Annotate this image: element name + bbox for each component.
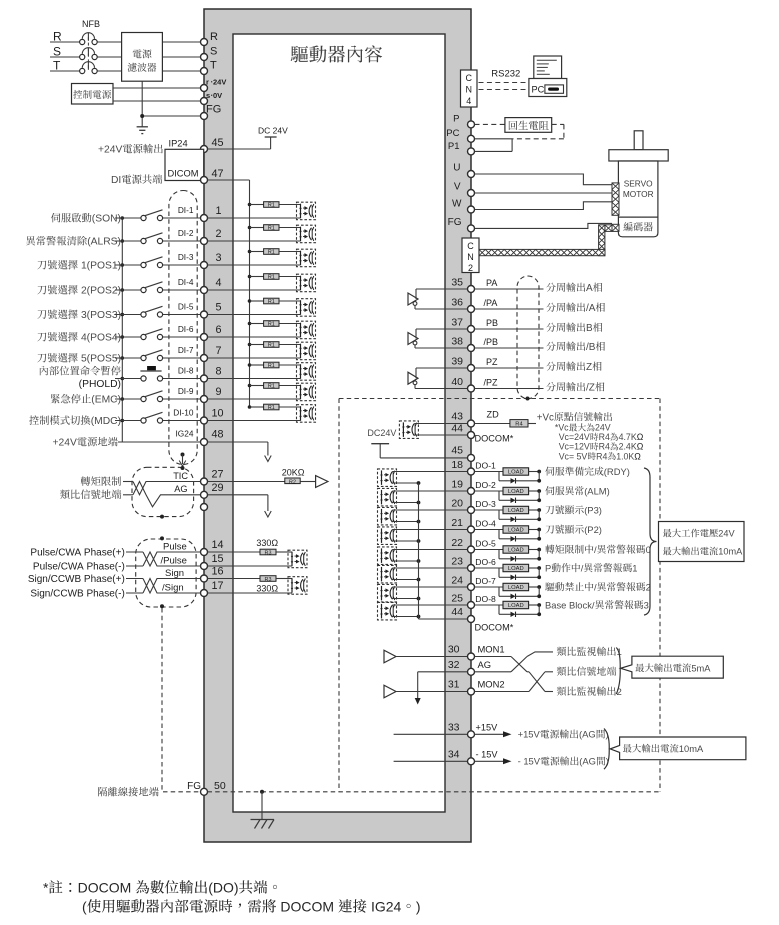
svg-text:R3: R3 [265, 551, 272, 557]
svg-text:N: N [467, 252, 474, 262]
svg-text:FG: FG [206, 104, 221, 116]
svg-text:24: 24 [451, 575, 463, 587]
svg-text:LOAD: LOAD [508, 470, 524, 476]
svg-text:DICOM: DICOM [168, 169, 199, 179]
svg-text:DI-7: DI-7 [178, 345, 194, 355]
svg-text:Vc= 5V: Vc= 5V [559, 451, 588, 461]
svg-text:37: 37 [451, 317, 463, 329]
svg-text:IG24: IG24 [367, 899, 401, 915]
svg-text:18: 18 [451, 459, 463, 471]
svg-text:DI-9: DI-9 [178, 386, 194, 396]
svg-text:R1: R1 [268, 384, 275, 390]
svg-text:23: 23 [451, 556, 463, 568]
svg-text:/A: /A [586, 303, 596, 314]
svg-text:R1: R1 [268, 343, 275, 349]
svg-text:- 15V: - 15V [476, 749, 499, 759]
svg-text:43: 43 [451, 411, 463, 423]
svg-text:Sign/CCWB Phase(-): Sign/CCWB Phase(-) [30, 588, 124, 599]
svg-text:(: ( [82, 899, 87, 915]
svg-text:V: V [454, 182, 461, 193]
svg-text:C: C [467, 241, 474, 251]
svg-text:DC 24V: DC 24V [258, 126, 288, 136]
svg-text:LOAD: LOAD [508, 566, 524, 572]
svg-text:MON2: MON2 [478, 679, 505, 690]
svg-text:R: R [210, 31, 218, 43]
svg-text:(AG: (AG [579, 756, 596, 767]
svg-text:20K: 20K [282, 468, 298, 478]
svg-text:R1: R1 [268, 405, 275, 411]
svg-text:DI-1: DI-1 [178, 205, 194, 215]
svg-text:3: 3 [644, 599, 649, 610]
svg-text:T: T [53, 59, 61, 73]
svg-text:1: 1 [216, 205, 222, 217]
svg-text:31: 31 [448, 679, 460, 691]
svg-text:24V: 24V [213, 78, 226, 87]
svg-text:DI-3: DI-3 [178, 252, 194, 262]
svg-text:DI-10: DI-10 [173, 408, 194, 418]
svg-text:- 15V: - 15V [518, 756, 541, 767]
svg-text:(RDY): (RDY) [604, 466, 630, 477]
svg-text:29: 29 [212, 482, 224, 494]
svg-text:(ALM): (ALM) [584, 485, 610, 496]
svg-text:35: 35 [451, 277, 463, 289]
svg-text:Ω: Ω [637, 432, 644, 442]
svg-text:R1: R1 [268, 363, 275, 369]
svg-text:19: 19 [451, 479, 463, 491]
svg-text:DOCOM: DOCOM [277, 899, 338, 915]
svg-text:34: 34 [448, 748, 460, 760]
svg-text:Vc=12V: Vc=12V [559, 442, 590, 452]
svg-text:DO-5: DO-5 [475, 539, 496, 549]
svg-text:P: P [453, 114, 459, 125]
svg-text:2.4K: 2.4K [619, 442, 637, 452]
svg-text:16: 16 [212, 566, 224, 578]
svg-text:DO-3: DO-3 [475, 499, 496, 509]
svg-text:R: R [53, 30, 62, 44]
svg-text:R4: R4 [515, 422, 523, 428]
svg-text:2(POS2): 2(POS2) [78, 286, 121, 297]
svg-text:A: A [586, 283, 593, 294]
svg-text:7: 7 [216, 345, 222, 357]
svg-text:FG: FG [448, 217, 462, 228]
svg-text:/: / [594, 544, 597, 555]
svg-text:RS232: RS232 [491, 69, 520, 80]
svg-text:/: / [581, 562, 584, 573]
svg-text:/: / [594, 581, 597, 592]
svg-text:IP24: IP24 [169, 139, 188, 149]
svg-text:44: 44 [451, 606, 463, 618]
svg-text:1.0K: 1.0K [616, 451, 634, 461]
svg-text:DO-4: DO-4 [475, 519, 496, 529]
svg-text:P1: P1 [448, 141, 460, 152]
svg-text:W: W [452, 199, 462, 210]
svg-text:AG: AG [478, 659, 492, 670]
svg-text:*: * [43, 880, 49, 896]
svg-text:N: N [465, 85, 472, 95]
svg-text:21: 21 [451, 517, 463, 529]
svg-text:R1: R1 [268, 299, 275, 305]
svg-text:36: 36 [451, 297, 463, 309]
svg-text:PZ: PZ [486, 357, 498, 367]
svg-text:DC24V: DC24V [367, 428, 396, 438]
svg-text:LOAD: LOAD [508, 585, 524, 591]
svg-text:Ω: Ω [634, 451, 641, 461]
svg-text:DI-5: DI-5 [178, 302, 194, 312]
svg-text:39: 39 [451, 356, 463, 368]
svg-text:/PA: /PA [484, 298, 498, 308]
svg-text:+24V: +24V [53, 438, 77, 449]
svg-text:44: 44 [451, 423, 463, 435]
svg-text:10mA: 10mA [679, 744, 704, 754]
svg-text:PC: PC [446, 128, 459, 139]
svg-text:DI-8: DI-8 [178, 366, 194, 376]
svg-text:+15V: +15V [476, 722, 499, 732]
svg-text:45: 45 [451, 445, 463, 457]
svg-text:U: U [453, 163, 460, 174]
svg-text:1: 1 [632, 562, 637, 573]
svg-text:(AG: (AG [579, 729, 596, 740]
svg-text:r: r [206, 78, 209, 87]
svg-text:5: 5 [216, 302, 222, 314]
svg-text:3: 3 [216, 252, 222, 264]
svg-text:TIC: TIC [173, 471, 188, 481]
svg-text:9: 9 [216, 386, 222, 398]
svg-text:4: 4 [216, 277, 222, 289]
svg-text:LOAD: LOAD [508, 603, 524, 609]
svg-text:DI-4: DI-4 [178, 277, 194, 287]
svg-text:2: 2 [468, 263, 473, 273]
svg-text:5mA: 5mA [691, 663, 711, 673]
svg-text:32: 32 [448, 659, 460, 671]
svg-text:R1: R1 [268, 203, 275, 209]
svg-text:DO-6: DO-6 [475, 557, 496, 567]
svg-text:15: 15 [212, 553, 224, 565]
svg-text:MOTOR: MOTOR [623, 189, 654, 199]
svg-text:DO-2: DO-2 [475, 480, 496, 490]
svg-text:R4: R4 [599, 432, 610, 442]
svg-text:45: 45 [212, 137, 224, 149]
svg-text:/PZ: /PZ [484, 378, 499, 388]
svg-text:/B: /B [586, 342, 596, 353]
svg-text:AG: AG [174, 484, 187, 494]
svg-text:330: 330 [256, 538, 271, 548]
svg-text:27: 27 [212, 469, 224, 481]
svg-text:30: 30 [448, 644, 460, 656]
svg-text:4: 4 [466, 96, 471, 106]
svg-text:LOAD: LOAD [508, 508, 524, 514]
svg-text:B: B [586, 323, 593, 334]
svg-text:22: 22 [451, 537, 463, 549]
svg-text:R2: R2 [289, 480, 296, 486]
svg-text:Sign/CCWB Phase(+): Sign/CCWB Phase(+) [28, 574, 125, 585]
svg-text:DO-8: DO-8 [475, 594, 496, 604]
svg-text:S: S [210, 46, 217, 58]
svg-text:): ) [416, 899, 421, 915]
svg-text:47: 47 [212, 168, 224, 180]
svg-text:20: 20 [451, 498, 463, 510]
svg-text:10: 10 [212, 408, 224, 420]
svg-text:(P2): (P2) [584, 524, 602, 535]
svg-text:(ALRS): (ALRS) [87, 237, 121, 248]
svg-text:DI-6: DI-6 [178, 324, 194, 334]
svg-text:DI: DI [111, 175, 121, 186]
svg-text:Ω: Ω [637, 442, 644, 452]
svg-text:S: S [53, 45, 61, 59]
svg-text:(EMC): (EMC) [91, 395, 121, 406]
svg-text:Ω: Ω [271, 584, 278, 594]
svg-text:PB: PB [486, 318, 498, 328]
svg-text:Pulse: Pulse [163, 541, 187, 552]
svg-text:Z: Z [586, 362, 592, 373]
svg-text:Vc=24V: Vc=24V [559, 432, 590, 442]
svg-text:FG: FG [187, 781, 201, 792]
svg-text:4.7K: 4.7K [619, 432, 637, 442]
svg-text:50: 50 [214, 780, 226, 792]
svg-text:NFB: NFB [82, 19, 100, 29]
svg-text:P: P [545, 562, 551, 573]
svg-text:R4: R4 [599, 442, 610, 452]
svg-text:(SON): (SON) [92, 214, 121, 225]
svg-text:/Pulse: /Pulse [161, 555, 187, 566]
svg-text:/Sign: /Sign [162, 582, 184, 593]
svg-text:IG24: IG24 [176, 429, 194, 439]
svg-text:Sign: Sign [165, 568, 184, 579]
svg-text:/Z: /Z [586, 383, 595, 394]
svg-text:DO-1: DO-1 [475, 461, 496, 471]
svg-text:4(POS4): 4(POS4) [78, 333, 121, 344]
svg-text:Pulse/CWA Phase(-): Pulse/CWA Phase(-) [33, 561, 125, 572]
svg-text:10mA: 10mA [718, 547, 743, 557]
svg-text:+15V: +15V [518, 729, 541, 740]
svg-text:330: 330 [256, 584, 271, 594]
svg-text:17: 17 [212, 580, 224, 592]
svg-text:1(POS1): 1(POS1) [78, 261, 121, 272]
svg-text:+Vc: +Vc [537, 412, 554, 423]
svg-text:DO-7: DO-7 [475, 576, 496, 586]
svg-text:R1: R1 [268, 250, 275, 256]
svg-text:Ω: Ω [271, 538, 278, 548]
svg-text:ZD: ZD [487, 410, 500, 420]
svg-text:/PB: /PB [484, 337, 499, 347]
svg-text:R1: R1 [268, 275, 275, 281]
svg-text:R3: R3 [265, 577, 272, 583]
svg-text:C: C [465, 73, 472, 83]
svg-text:6: 6 [216, 324, 222, 336]
svg-text:R1: R1 [268, 322, 275, 328]
svg-text:LOAD: LOAD [508, 548, 524, 554]
svg-text:38: 38 [451, 336, 463, 348]
svg-text:(P3): (P3) [584, 504, 602, 515]
svg-text:DOCOM*: DOCOM* [475, 434, 514, 444]
svg-text:(DO): (DO) [208, 880, 238, 896]
svg-text:(PHOLD): (PHOLD) [79, 379, 121, 390]
svg-text:40: 40 [451, 376, 463, 388]
svg-text:+24V: +24V [98, 145, 122, 156]
svg-text:PA: PA [486, 278, 497, 288]
svg-text:48: 48 [212, 429, 224, 441]
svg-text:R4: R4 [596, 451, 607, 461]
svg-text:Pulse/CWA Phase(+): Pulse/CWA Phase(+) [30, 547, 124, 558]
svg-text:(MDC): (MDC) [91, 416, 121, 427]
svg-text:R1: R1 [268, 226, 275, 232]
svg-text:Base Block/: Base Block/ [545, 599, 595, 610]
svg-text:DOCOM: DOCOM [78, 880, 136, 896]
svg-text:24V: 24V [718, 529, 735, 539]
svg-text:T: T [210, 60, 217, 72]
svg-text:8: 8 [216, 366, 222, 378]
svg-text:DOCOM*: DOCOM* [475, 623, 514, 633]
svg-text:25: 25 [451, 593, 463, 605]
svg-text:Ω: Ω [298, 468, 305, 478]
svg-text:DI-2: DI-2 [178, 228, 194, 238]
svg-text:5(POS5): 5(POS5) [78, 354, 121, 365]
svg-text:MON1: MON1 [478, 644, 505, 655]
svg-text:SERVO: SERVO [624, 179, 653, 189]
svg-text:2: 2 [216, 228, 222, 240]
svg-text:PC: PC [532, 85, 545, 95]
svg-text:LOAD: LOAD [508, 489, 524, 495]
svg-text:3(POS3): 3(POS3) [78, 310, 121, 321]
svg-text:0V: 0V [213, 91, 222, 100]
svg-text:33: 33 [448, 721, 460, 733]
svg-text:LOAD: LOAD [508, 528, 524, 534]
svg-text:14: 14 [212, 539, 224, 551]
